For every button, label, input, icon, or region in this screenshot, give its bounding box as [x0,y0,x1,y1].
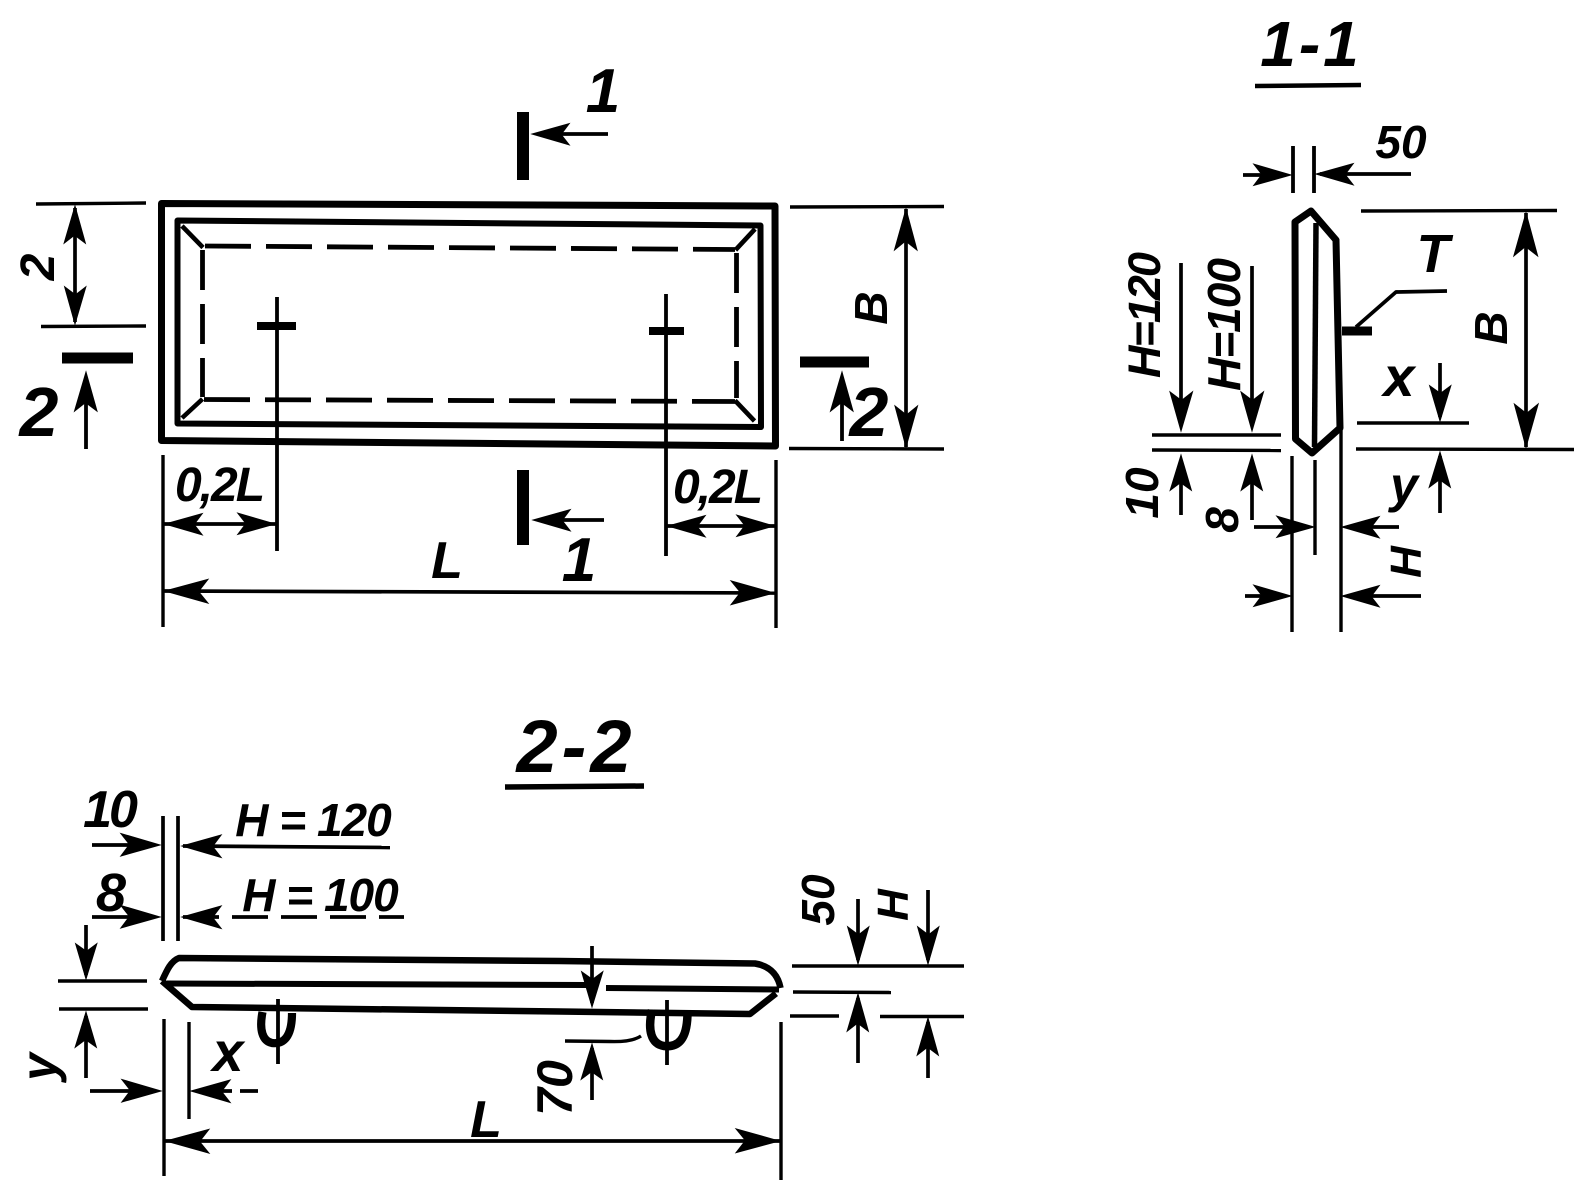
svg-text:Н = 120: Н = 120 [235,794,392,846]
svg-text:1: 1 [562,526,596,595]
svg-text:0,2L: 0,2L [673,461,761,514]
svg-text:х: х [1380,345,1417,408]
svg-text:В: В [1465,311,1517,344]
svg-text:у: у [1387,457,1420,513]
svg-text:50: 50 [1375,116,1427,168]
svg-text:1-1: 1-1 [1260,8,1362,80]
svg-text:10: 10 [1116,467,1168,519]
svg-text:1: 1 [586,57,620,126]
svg-text:Н: Н [1382,545,1431,578]
svg-text:2: 2 [12,253,65,281]
svg-text:0,2L: 0,2L [175,459,263,512]
svg-text:10: 10 [83,781,138,839]
svg-text:L: L [470,1091,502,1149]
svg-text:Н=120: Н=120 [1119,252,1170,378]
svg-text:L: L [431,532,463,590]
svg-text:Н=100: Н=100 [1198,258,1250,391]
svg-text:2-2: 2-2 [515,705,636,788]
svg-text:В: В [845,291,897,324]
svg-text:70: 70 [527,1060,583,1116]
svg-text:Н: Н [869,888,918,921]
svg-text:Т: Т [1417,224,1454,284]
svg-text:50: 50 [792,874,844,926]
svg-text:у: у [11,1051,67,1084]
svg-text:8: 8 [96,863,126,923]
svg-text:Н = 100: Н = 100 [242,869,399,921]
svg-text:2: 2 [18,373,59,451]
svg-text:х: х [209,1020,246,1083]
svg-text:2: 2 [848,373,889,451]
svg-text:8: 8 [1196,507,1248,533]
